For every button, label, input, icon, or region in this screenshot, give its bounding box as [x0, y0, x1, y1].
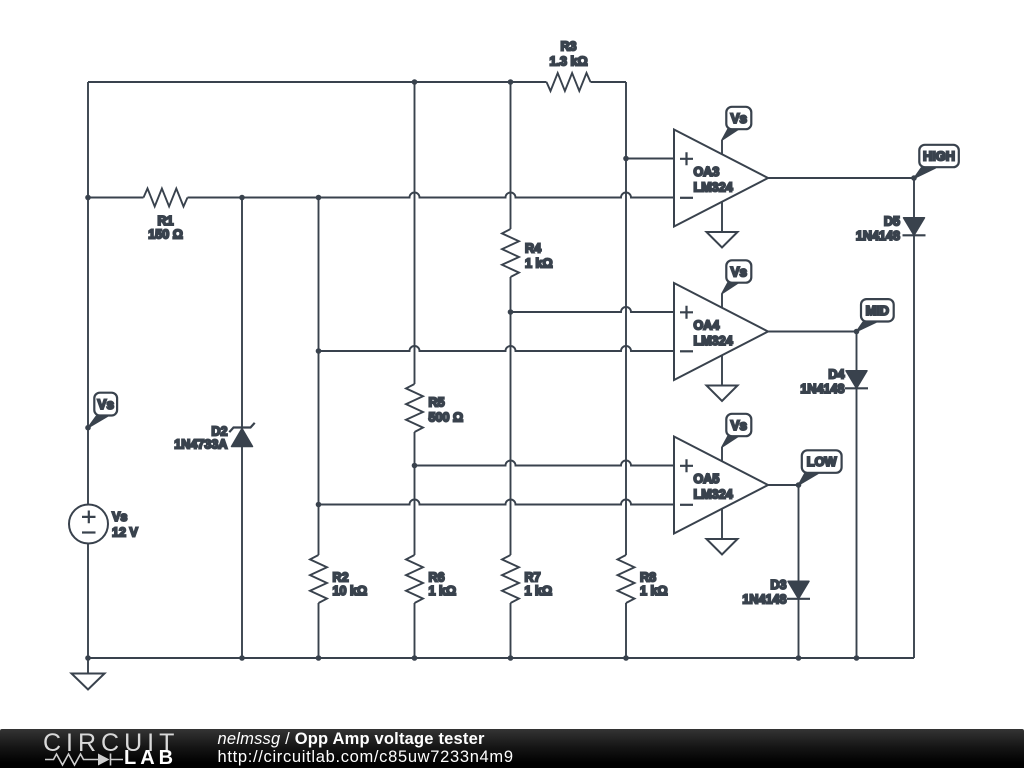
wire OA5 output to LOW node: [768, 484, 799, 486]
op-amp OA3 triangle: [674, 130, 768, 227]
resistor R6 zigzag: [406, 555, 423, 603]
node Vs flag tap on left rail: [85, 425, 91, 431]
node ground bus / R2 rail: [316, 655, 322, 661]
wire R7 rail lower: [510, 603, 512, 658]
resistor R2 zigzag: [310, 555, 327, 603]
diode D4 with labels: [846, 371, 867, 389]
node HIGH output junction: [911, 175, 917, 181]
footer title: [218, 730, 485, 749]
wire OA5 inverting input from reference rail: [319, 500, 675, 505]
node top rail / R5 rail junction: [412, 79, 418, 85]
wire R5 to R6 rail: [414, 432, 416, 555]
wire op-amp OA5 V- stub: [721, 509, 723, 539]
op-amp OA4 inverting input marker: [680, 350, 693, 352]
wire MID rail through D4 to ground bus: [856, 332, 858, 659]
node ground bus / R7 rail: [508, 655, 514, 661]
voltage source minus marker: [82, 531, 96, 533]
wire left rail lower segment: [87, 544, 89, 659]
wire OA4 inverting input from reference rail: [319, 346, 675, 351]
wire R1 output to OA3 inverting input: [188, 193, 675, 198]
net flag LOW: [799, 474, 819, 486]
net flag Vs on op-amp OA4: [722, 282, 740, 294]
node LOW output junction: [796, 482, 802, 488]
node R1 / D2 junction: [239, 195, 245, 201]
node ground bus / left rail: [85, 655, 91, 661]
wire HIGH rail through D5 to ground bus: [913, 178, 915, 658]
node OA5 inverting tap junction: [316, 502, 322, 508]
node OA5 non-inverting tap junction: [412, 463, 418, 469]
wire op-amp OA4 V+ stub: [721, 294, 723, 308]
wire left rail upper segment: [87, 82, 89, 505]
wire main ground stub: [87, 658, 89, 674]
node top rail / R4 rail junction: [508, 79, 514, 85]
wire OA3 non-inverting input tap: [626, 158, 674, 160]
net flag MID: [857, 322, 877, 331]
node OA3 non-inverting tap junction: [623, 156, 629, 162]
diode D5 with labels: [904, 218, 925, 236]
net flag Vs on op-amp OA5: [722, 436, 740, 448]
wire R5 rail from top: [414, 82, 416, 384]
op-amp OA4 triangle: [674, 283, 768, 380]
node OA4 non-inverting tap junction: [508, 309, 514, 315]
wire OA4 non-inverting input from R4 tap: [511, 307, 675, 312]
zener diode D2 symbol: [232, 429, 253, 447]
resistor R3 zigzag: [547, 73, 591, 91]
node ground bus / D4 rail: [854, 655, 860, 661]
wire R2 rail upper: [318, 198, 320, 556]
wire D2 branch upper: [241, 198, 243, 428]
footer bar: [0, 729, 1024, 768]
op-amp OA4 non-inverting input marker: [680, 306, 693, 319]
voltage source Vs circle: [69, 505, 108, 544]
node ground bus / D2 rail: [239, 655, 245, 661]
CircuitLab logo LAB: [124, 747, 177, 768]
net flag HIGH: [914, 168, 935, 178]
node OA4 inverting tap junction: [316, 348, 322, 354]
op-amp OA3 non-inverting input marker: [680, 152, 693, 165]
net flag Vs on left rail: [88, 416, 108, 428]
resistor R1 zigzag: [144, 189, 188, 207]
wire OA4 output to MID node: [768, 331, 857, 333]
resistor R8 zigzag: [618, 555, 635, 603]
wire LOW rail through D3 to ground bus: [798, 485, 800, 658]
ground below op-amp OA5: [707, 539, 738, 555]
wire R8 rail lower: [625, 603, 627, 658]
wire OA5 non-inverting input from R5 tap: [415, 461, 675, 466]
resistor R4 zigzag: [502, 229, 519, 277]
ground below op-amp OA3: [707, 232, 738, 248]
wire D2 branch lower: [241, 447, 243, 659]
wire R2 rail lower: [318, 603, 320, 658]
node left rail / R1 junction: [85, 195, 91, 201]
node ground bus / R6 rail: [412, 655, 418, 661]
wire op-amp OA4 V- stub: [721, 355, 723, 385]
ground below op-amp OA4: [707, 386, 738, 402]
wire R1 lead left: [88, 197, 144, 199]
node R1 / reference rail junction: [316, 195, 322, 201]
node ground bus / D3 rail: [796, 655, 802, 661]
ground main at left rail: [72, 674, 105, 690]
wire R4 to R7 rail: [510, 277, 512, 555]
wire op-amp OA5 V+ stub: [721, 447, 723, 461]
wire bottom ground bus: [88, 657, 914, 659]
wire R3 right to rail: [591, 81, 627, 83]
op-amp OA3 inverting input marker: [680, 197, 693, 199]
wire top rail Vs from source to R3: [88, 81, 547, 83]
voltage source plus marker: [82, 511, 96, 524]
node ground bus / R8 rail: [623, 655, 629, 661]
CircuitLab logo CIRCUIT: [43, 729, 179, 758]
footer url: [218, 748, 514, 767]
op-amp OA5 inverting input marker: [680, 504, 693, 506]
op-amp OA5 triangle: [674, 437, 768, 534]
wire OA3 output to HIGH node: [768, 177, 914, 179]
net flag Vs on op-amp OA3: [722, 129, 740, 141]
resistor R7 zigzag: [502, 555, 519, 603]
wire R8 rail upper: [625, 82, 627, 555]
wire R4 rail from top: [510, 82, 512, 229]
wire op-amp OA3 V- stub: [721, 202, 723, 232]
wire op-amp OA3 V+ stub: [721, 140, 723, 154]
resistor R5 zigzag: [406, 384, 423, 432]
node MID output junction: [854, 329, 860, 335]
op-amp OA5 non-inverting input marker: [680, 459, 693, 472]
wire R6 rail lower: [414, 603, 416, 658]
diode D3 with labels: [788, 581, 809, 599]
